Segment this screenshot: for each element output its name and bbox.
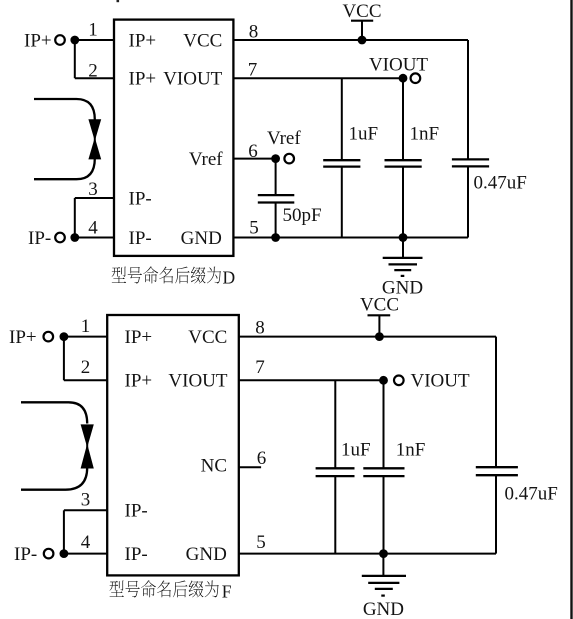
- capacitor C2 bottom plate: [323, 165, 360, 167]
- capacitor C6 1nF top lead: [383, 380, 385, 468]
- capacitor C3 bottom lead: [402, 167, 404, 238]
- ground bar 3: [394, 269, 411, 271]
- ground bar 1: [383, 257, 423, 259]
- svg-text:8: 8: [255, 317, 265, 338]
- svg-text:IP+: IP+: [125, 371, 153, 392]
- svg-text:VCC: VCC: [342, 1, 381, 22]
- wire pin3 node down to pin4 row (U2): [63, 510, 65, 553]
- junction dot C1 to GND rail: [271, 233, 280, 242]
- svg-text:IP+: IP+: [129, 69, 157, 90]
- ground bar 2 (circuit 2): [368, 582, 399, 584]
- capacitor C7 bottom plate: [476, 474, 518, 476]
- capacitor C2 1uF top lead: [341, 78, 343, 160]
- svg-text:IP-: IP-: [28, 228, 51, 249]
- wire IP+ node down to pin2 row (U2): [63, 337, 65, 381]
- junction dot GND node: [399, 233, 408, 242]
- page right border line: [570, 0, 572, 619]
- svg-text:VCC: VCC: [360, 294, 399, 315]
- wire pin7 VIOUT: [233, 77, 403, 79]
- VCC bar: [351, 20, 373, 22]
- svg-text:VIOUT: VIOUT: [163, 69, 222, 90]
- junction dot at IP+ node (circuit 2): [60, 332, 69, 341]
- junction dot at IP+ node: [70, 36, 79, 45]
- wire pin3: [75, 197, 114, 199]
- wire pin3 (U2): [64, 509, 107, 511]
- VCC stub (circuit 2): [378, 315, 380, 336]
- current path lower conductor: [34, 159, 95, 180]
- svg-text:3: 3: [81, 490, 91, 511]
- capacitor C1 top plate: [258, 194, 295, 196]
- VCC bar (circuit 2): [368, 314, 391, 316]
- junction dot VIOUT (circuit 2): [379, 376, 388, 385]
- svg-text:1uF: 1uF: [349, 123, 379, 144]
- svg-text:7: 7: [255, 357, 265, 378]
- IC U2 body (current sensor, suffix F): [107, 315, 239, 575]
- svg-text:Vref: Vref: [189, 149, 223, 170]
- capacitor C1 bottom lead: [275, 203, 277, 238]
- wire pin5 GND rail: [233, 237, 468, 239]
- svg-text:5: 5: [249, 217, 259, 238]
- junction dot VIOUT: [399, 74, 408, 83]
- svg-text:NC: NC: [201, 456, 227, 477]
- junction dot at IP- node (circuit 2): [60, 549, 69, 558]
- svg-text:4: 4: [88, 218, 98, 239]
- current direction arrowhead upper: [88, 119, 101, 138]
- capacitor C4 bottom lead: [467, 166, 469, 237]
- current arrows waist (circuit 2): [86, 443, 88, 450]
- current arrows waist: [94, 136, 96, 142]
- ground bar 3 (circuit 2): [375, 588, 393, 590]
- terminal Vref open circle: [284, 154, 294, 164]
- ground symbol stem (circuit 2): [382, 554, 384, 576]
- svg-text:VIOUT: VIOUT: [168, 371, 227, 392]
- capacitor C7 top plate: [476, 466, 518, 468]
- capacitor C5 1uF top lead: [334, 380, 336, 468]
- svg-text:GND: GND: [186, 544, 227, 565]
- junction dot GND node (circuit 2): [379, 549, 388, 558]
- wire pin8 to VCC rail (U2): [239, 336, 496, 338]
- capacitor C3 top plate: [385, 159, 422, 161]
- capacitor C1 50pF top lead: [275, 159, 277, 196]
- svg-text:0.47uF: 0.47uF: [505, 483, 558, 504]
- capacitor C2 bottom lead: [341, 167, 343, 238]
- svg-text:IP+: IP+: [24, 30, 52, 51]
- svg-text:1nF: 1nF: [396, 439, 426, 460]
- caption: model suffix F (Chinese): [109, 580, 218, 597]
- capacitor C2 top plate: [323, 159, 360, 161]
- svg-text:0.47uF: 0.47uF: [474, 172, 527, 193]
- current path upper conductor (circuit 2): [21, 402, 87, 423]
- wire pin5 GND rail (U2): [239, 553, 496, 555]
- svg-text:IP+: IP+: [129, 30, 157, 51]
- svg-text:GND: GND: [363, 599, 404, 619]
- wire pin7 VIOUT (U2): [239, 379, 384, 381]
- capacitor C5 bottom plate: [316, 475, 355, 477]
- caption: model suffix D (Chinese): [112, 266, 221, 283]
- junction dot VCC on pin8 wire: [358, 36, 367, 45]
- capacitor C6 top plate: [363, 467, 404, 469]
- current direction arrowhead lower (circuit 2): [81, 447, 94, 469]
- terminal IP- open circle: [55, 233, 65, 243]
- capacitor C4 top plate: [452, 158, 489, 160]
- ground bar 4: [401, 275, 405, 277]
- svg-text:IP-: IP-: [129, 188, 152, 209]
- svg-text:1nF: 1nF: [410, 123, 440, 144]
- capacitor C3 bottom plate: [385, 165, 422, 167]
- wire pin3 node down to pin4 row: [74, 198, 76, 238]
- svg-text:VCC: VCC: [188, 327, 227, 348]
- svg-text:VIOUT: VIOUT: [369, 54, 428, 75]
- capacitor C6 bottom lead: [383, 476, 385, 553]
- svg-text:F: F: [222, 581, 232, 601]
- svg-text:1: 1: [81, 316, 91, 337]
- wire pin2 (U2): [64, 379, 107, 381]
- wire pin8 to VCC rail: [233, 39, 468, 41]
- svg-text:IP+: IP+: [9, 327, 37, 348]
- terminal IP+ open circle: [55, 35, 65, 45]
- junction dot at IP- node: [70, 233, 79, 242]
- svg-text:IP-: IP-: [14, 544, 37, 565]
- terminal IP+ open circle (circuit 2): [44, 332, 54, 342]
- capacitor C4 bottom plate: [452, 165, 489, 167]
- capacitor C6 bottom plate: [363, 475, 404, 477]
- ground bar 2: [389, 263, 418, 265]
- VCC stub: [361, 21, 363, 40]
- wire pin4 (U2): [64, 553, 107, 555]
- junction dot VCC on pin8 wire (circuit 2): [375, 332, 384, 341]
- cropped text remnant at top: [117, 0, 120, 2]
- svg-text:Vref: Vref: [267, 128, 301, 149]
- current direction arrowhead lower: [88, 140, 101, 159]
- wire IP+ node down to pin2 row: [74, 40, 76, 78]
- wire pin6 NC stub: [239, 466, 261, 468]
- wire pin1 (U2): [64, 336, 107, 338]
- capacitor C7 0.47uF top lead: [495, 337, 497, 468]
- svg-text:2: 2: [81, 357, 91, 378]
- svg-text:1: 1: [88, 20, 98, 41]
- svg-text:GND: GND: [181, 228, 222, 249]
- svg-text:6: 6: [257, 448, 267, 469]
- terminal IP- open circle (circuit 2): [44, 549, 54, 559]
- ground bar 1 (circuit 2): [362, 575, 406, 577]
- svg-text:50pF: 50pF: [283, 205, 322, 226]
- svg-text:IP+: IP+: [125, 327, 153, 348]
- terminal VIOUT open circle: [411, 73, 421, 83]
- svg-text:1uF: 1uF: [341, 439, 371, 460]
- current path lower conductor (circuit 2): [21, 468, 87, 490]
- wire pin1: [75, 39, 114, 41]
- svg-text:5: 5: [256, 532, 266, 553]
- svg-text:4: 4: [81, 532, 91, 553]
- capacitor C4 0.47uF top lead: [467, 40, 469, 159]
- svg-text:IP-: IP-: [125, 501, 148, 522]
- IC U1 body (current sensor, suffix D): [114, 20, 233, 256]
- capacitor C1 bottom plate: [258, 201, 295, 203]
- capacitor C7 bottom lead: [495, 475, 497, 553]
- svg-text:IP-: IP-: [125, 544, 148, 565]
- ground symbol stem (circuit 1): [402, 238, 404, 258]
- ground bar 4 (circuit 2): [381, 594, 385, 596]
- terminal VIOUT open circle (circuit 2): [394, 376, 404, 386]
- current path upper conductor: [34, 99, 95, 120]
- junction dot Vref: [271, 154, 280, 163]
- wire pin2: [75, 77, 114, 79]
- svg-text:D: D: [223, 267, 236, 287]
- capacitor C5 bottom lead: [334, 476, 336, 553]
- svg-text:VIOUT: VIOUT: [411, 371, 470, 392]
- svg-text:IP-: IP-: [129, 228, 152, 249]
- svg-text:VCC: VCC: [183, 30, 222, 51]
- wire pin6 Vref: [233, 158, 275, 160]
- current direction arrowhead upper (circuit 2): [81, 424, 94, 444]
- capacitor C5 top plate: [316, 467, 355, 469]
- wire pin4: [75, 237, 114, 239]
- capacitor C3 1nF top lead: [402, 78, 404, 160]
